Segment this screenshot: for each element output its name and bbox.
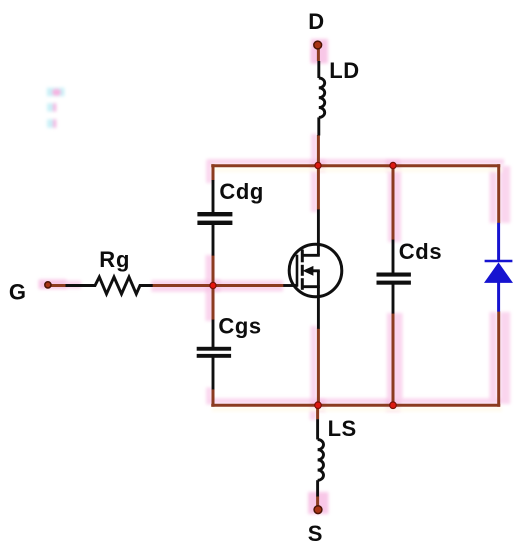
- svg-text:G: G: [9, 279, 26, 304]
- svg-text:D: D: [308, 9, 324, 34]
- svg-text:S: S: [308, 521, 323, 546]
- svg-text:LD: LD: [329, 58, 359, 83]
- svg-text:Cdg: Cdg: [219, 179, 264, 204]
- svg-text:LS: LS: [328, 416, 357, 441]
- svg-text:Rg: Rg: [99, 247, 130, 272]
- svg-text:Cgs: Cgs: [218, 314, 261, 339]
- svg-text:Cds: Cds: [399, 239, 442, 264]
